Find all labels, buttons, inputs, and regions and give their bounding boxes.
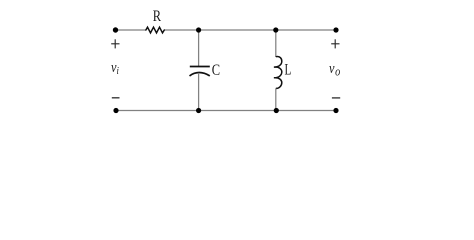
junction dot bottom inductor [274,108,279,113]
terminal dot top-right [333,27,338,32]
wire bottom [116,110,336,112]
svg-text:R: R [153,7,162,25]
wire inductor bottom lead [275,88,277,110]
capacitor C curved plate [190,73,210,76]
plus sign right [331,39,339,48]
terminal dot top-left [113,27,118,32]
minus sign left [112,97,120,99]
svg-text:vo: vo [329,60,341,79]
inductor L coil [274,57,282,89]
minus sign right [332,97,340,99]
capacitor C top plate [190,66,210,68]
terminal dot bottom-right [333,108,338,113]
node A junction dot top (capacitor) [196,27,201,32]
wire inductor top lead [275,30,277,57]
node B junction dot top (inductor) [273,27,278,32]
wire capacitor bottom lead [198,73,200,111]
terminal dot bottom-left [113,108,118,113]
wire node B to vo+ [276,29,336,31]
svg-text:vi: vi [111,59,119,77]
plus sign left [111,39,119,48]
wire top-left segment (vi+ to resistor) [116,29,147,31]
resistor R [146,27,164,33]
wire node A to node B [199,29,276,31]
wire capacitor top lead [198,30,200,66]
wire resistor to node A [165,29,199,31]
junction dot bottom capacitor [196,108,201,113]
svg-text:L: L [284,60,291,77]
svg-text:C: C [212,62,220,80]
